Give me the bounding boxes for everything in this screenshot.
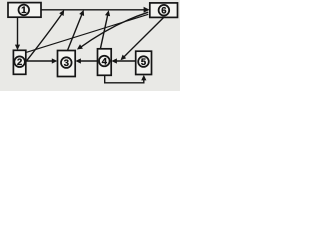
svg-text:2: 2 [17, 56, 22, 67]
svg-text:6: 6 [161, 5, 166, 16]
svg-text:1: 1 [21, 4, 26, 15]
svg-text:3: 3 [64, 57, 69, 68]
svg-text:5: 5 [141, 56, 146, 67]
svg-text:4: 4 [102, 55, 108, 66]
